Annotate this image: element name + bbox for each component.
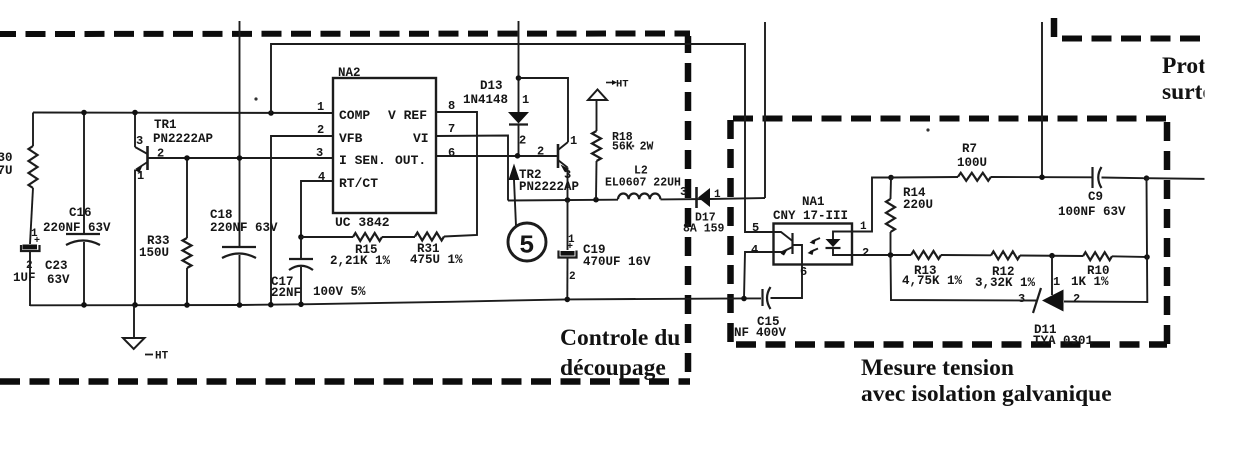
svg-text:2: 2	[537, 145, 544, 159]
resistor R33	[186, 158, 188, 238]
svg-text:150U: 150U	[139, 246, 169, 260]
svg-text:1: 1	[1053, 275, 1060, 289]
svg-text:220NF 63V: 220NF 63V	[210, 221, 278, 235]
scan speck	[632, 145, 635, 148]
svg-text:1: 1	[522, 93, 529, 107]
svg-text:+: +	[34, 236, 40, 247]
svg-text:PN2222AP: PN2222AP	[153, 132, 213, 146]
wire: NA1 pin 5	[745, 199, 774, 232]
svg-text:2: 2	[862, 246, 869, 260]
svg-text:HT: HT	[155, 351, 169, 363]
annotation: arrow from circled 5 pointing at OUT node	[514, 180, 516, 226]
node: D13 cathode on OUT net	[515, 153, 521, 159]
wire: NA1 pin 4 down to ground line	[744, 252, 774, 298]
optocoupler NA1 CNY 17-III box	[774, 224, 853, 265]
node: RT/CT / R15 / C17 junction	[298, 234, 304, 240]
dashed border: Controle du decoupage box right edge	[685, 36, 692, 382]
svg-text:8: 8	[448, 99, 455, 113]
svg-text:avec isolation galvanique: avec isolation galvanique	[861, 381, 1112, 407]
dashed border: Mesure tension box right edge	[1164, 118, 1171, 346]
svg-text:5: 5	[752, 221, 759, 235]
svg-text:2: 2	[317, 123, 324, 137]
svg-text:100NF 63V: 100NF 63V	[1058, 205, 1126, 219]
wire: VI pin 7 to output rail	[436, 136, 508, 201]
svg-text:4,75K 1%: 4,75K 1%	[902, 274, 963, 288]
wire: RT/CT pin 4 to C17 node	[301, 181, 333, 237]
wire: COMP feedback line up and across to optocoupler rail	[271, 44, 745, 199]
transistor TR1 PN2222AP	[134, 113, 136, 148]
inductor L2	[618, 194, 660, 200]
node: C17 on bus	[298, 302, 304, 308]
svg-text:470UF 16V: 470UF 16V	[583, 255, 651, 269]
svg-text:COMP: COMP	[339, 108, 370, 123]
resistor R13	[911, 251, 941, 259]
svg-text:HT: HT	[616, 79, 629, 91]
svg-text:NA1: NA1	[802, 195, 825, 209]
svg-text:1: 1	[860, 221, 867, 233]
svg-text:47U: 47U	[0, 164, 13, 178]
svg-text:+: +	[567, 242, 573, 253]
wire: ground bus (bottom rail, slightly sloped scan)	[30, 298, 761, 305]
light arrows inside NA1	[812, 238, 820, 242]
svg-text:PN2222AP: PN2222AP	[519, 180, 579, 194]
svg-text:1K 1%: 1K 1%	[1071, 275, 1109, 289]
dashed border: Mesure tension box top edge	[730, 116, 1167, 122]
wire: top horizontal net COMP (left part)	[33, 112, 333, 115]
resistor R7	[891, 176, 958, 179]
node: pin 4 on ground line	[741, 296, 747, 302]
wire: C9 node down through R10 node to D11 anode	[1064, 178, 1147, 302]
capacitor C17	[300, 237, 302, 259]
svg-text:R30: R30	[0, 151, 13, 165]
resistor R31	[415, 233, 444, 241]
svg-text:6: 6	[800, 265, 807, 279]
node: C9 / R10 junction	[1144, 175, 1150, 181]
resistor R10	[1083, 252, 1112, 260]
node: R33 bottom	[184, 302, 190, 308]
svg-text:EL0607 22UH: EL0607 22UH	[605, 177, 681, 190]
svg-text:CNY 17-III: CNY 17-III	[773, 209, 848, 223]
svg-text:VI: VI	[413, 131, 429, 146]
svg-text:NF: NF	[734, 326, 749, 340]
wire: NA1 pin 2 to divider	[852, 254, 911, 256]
node: C16 top	[81, 110, 87, 116]
wire: NA1 pin 6 down to C15	[771, 265, 803, 299]
power symbol +HT	[588, 90, 607, 101]
svg-text:7: 7	[448, 122, 455, 136]
capacitor C23 (electrolytic)	[23, 245, 38, 250]
svg-text:découpage: découpage	[560, 355, 666, 381]
wire: D11 cathode to R14 bottom	[891, 255, 1037, 301]
node: stub on R7 net	[1039, 174, 1045, 180]
svg-text:Controle du: Controle du	[560, 325, 680, 351]
svg-text:1: 1	[137, 169, 144, 183]
wire: stub from top edge to D13	[518, 21, 520, 112]
svg-text:RT/CT: RT/CT	[339, 176, 378, 191]
svg-text:C18: C18	[210, 208, 233, 222]
svg-text:1UF: 1UF	[13, 271, 36, 285]
svg-text:22NF: 22NF	[271, 286, 301, 300]
svg-text:63V: 63V	[47, 273, 70, 287]
dashed border: Mesure tension box bottom edge	[736, 341, 1167, 348]
wire: C23 down to ground bus	[29, 251, 31, 306]
resistor R15	[301, 236, 353, 238]
node: R7/R14 junction	[888, 175, 894, 181]
svg-text:6: 6	[448, 146, 455, 160]
svg-text:C23: C23	[45, 259, 68, 273]
diode D17	[695, 187, 698, 208]
wire: OUT pin 6 to TR2 base	[436, 155, 557, 157]
svg-text:2: 2	[519, 134, 526, 148]
svg-text:3,32K 1%: 3,32K 1%	[975, 276, 1036, 290]
wire: TR1 base to NA2 pin 3 (I SEN)	[149, 157, 334, 159]
svg-text:3: 3	[680, 185, 687, 199]
node: R33 top	[184, 155, 190, 161]
node: C19 on ground line	[565, 297, 571, 303]
capacitor C19 (electrolytic)	[567, 200, 569, 250]
svg-text:1N4148: 1N4148	[463, 93, 508, 107]
svg-text:5: 5	[519, 231, 535, 261]
dashed border: Protection surtension box left edge	[1051, 18, 1058, 40]
node: TR1 emitter on bus	[132, 302, 138, 308]
scan speck	[254, 97, 257, 100]
dashed border: Mesure tension box left edge	[727, 118, 734, 344]
node label: circled 5	[508, 223, 546, 261]
wire: stub from top edge to rail end	[764, 22, 766, 198]
wire: output rail from VI corner to D17 and NA1	[508, 199, 618, 202]
svg-text:Mesure tension: Mesure tension	[861, 355, 1014, 381]
svg-text:1: 1	[317, 100, 324, 114]
svg-text:1: 1	[570, 134, 577, 148]
wire: vertical stub from top edge through C18 to bus	[239, 21, 241, 247]
node: C18 line on ISEN wire	[237, 155, 243, 161]
wire: R15 to R31	[382, 236, 415, 238]
svg-text:R7: R7	[962, 142, 977, 156]
LED inside NA1	[833, 232, 851, 240]
svg-text:3: 3	[1018, 292, 1025, 306]
svg-text:UC 3842: UC 3842	[335, 215, 390, 230]
node: R10 right junction	[1144, 254, 1150, 260]
svg-text:100V 5%: 100V 5%	[313, 285, 366, 299]
resistor R12	[991, 251, 1020, 259]
wire: rail from D17 anode to stub corner	[710, 198, 765, 199]
svg-text:2: 2	[569, 271, 576, 283]
svg-text:3: 3	[136, 134, 143, 148]
svg-text:V REF: V REF	[388, 108, 427, 123]
svg-text:D13: D13	[480, 79, 503, 93]
white scan margin right	[1205, 0, 1245, 460]
capacitor C15	[761, 289, 763, 306]
resistor R14	[890, 178, 893, 200]
svg-text:220U: 220U	[903, 198, 933, 212]
wire: branch to TR2 collector	[519, 78, 569, 142]
transistor TR2 PN2222AP	[557, 144, 560, 168]
svg-text:TYA 0301: TYA 0301	[1033, 334, 1093, 348]
svg-text:I SEN.: I SEN.	[339, 153, 386, 168]
node: C16 bottom on bus	[81, 302, 87, 308]
node: VFB line on bus	[268, 302, 274, 308]
node: TR1 collector on top net	[132, 110, 138, 116]
node: D13 / TR2 collector branch	[516, 75, 522, 81]
svg-text:OUT.: OUT.	[395, 153, 426, 168]
dashed border: Controle du decoupage box bottom edge	[0, 378, 690, 385]
svg-text:2: 2	[1073, 292, 1080, 306]
wire: VFB pin 2 down to bus	[271, 136, 333, 305]
svg-text:475U 1%: 475U 1%	[410, 253, 463, 267]
wire: left branch down to R30	[32, 113, 34, 147]
op-amp/PWM IC NA2 UC3842 box	[333, 78, 436, 213]
capacitor C18	[222, 246, 256, 248]
capacitor C16	[83, 113, 85, 235]
ground symbol -HT	[133, 305, 135, 338]
svg-text:TR1: TR1	[154, 118, 177, 132]
svg-text:400V: 400V	[756, 326, 787, 340]
node: R18 on rail	[593, 197, 599, 203]
node: R14 bottom junction	[888, 252, 894, 258]
svg-text:VFB: VFB	[339, 131, 363, 146]
resistor R30	[29, 146, 38, 188]
wire: net exiting to right edge	[1147, 177, 1214, 180]
dashed border: Controle du decoupage box top edge	[0, 31, 690, 38]
wire: stub from top edge down to R7/C9 node	[1041, 22, 1043, 177]
phototransistor inside NA1	[791, 233, 793, 254]
wire: R31 up to V REF pin 8	[436, 112, 477, 237]
wire: NA1 pin 1 up to R7 net	[852, 178, 891, 232]
node: D11 ref junction	[1049, 253, 1055, 259]
svg-text:C9: C9	[1088, 190, 1103, 204]
svg-text:8A 159: 8A 159	[683, 223, 725, 236]
capacitor C9	[1091, 167, 1093, 188]
svg-text:220NF 63V: 220NF 63V	[43, 221, 111, 235]
svg-text:2,21K 1%: 2,21K 1%	[330, 254, 391, 268]
svg-text:4: 4	[751, 243, 758, 257]
resistor R18	[596, 100, 598, 131]
svg-text:C16: C16	[69, 206, 92, 220]
node: COMP feedback junction	[268, 110, 274, 116]
svg-text:3: 3	[316, 146, 323, 160]
dashed border: Protection surtension box bottom edge	[1054, 36, 1215, 42]
wire: R30 to C23	[30, 188, 33, 244]
scan speck	[926, 128, 929, 131]
shunt regulator D11 TYA 0301	[1051, 256, 1053, 295]
node: TR2 emitter on rail	[565, 197, 571, 203]
node: C18 on bus	[237, 302, 243, 308]
diode D13 1N4148	[508, 112, 529, 124]
svg-text:100U: 100U	[957, 156, 987, 170]
svg-text:NA2: NA2	[338, 66, 361, 80]
base lead to pin 6	[793, 245, 802, 265]
